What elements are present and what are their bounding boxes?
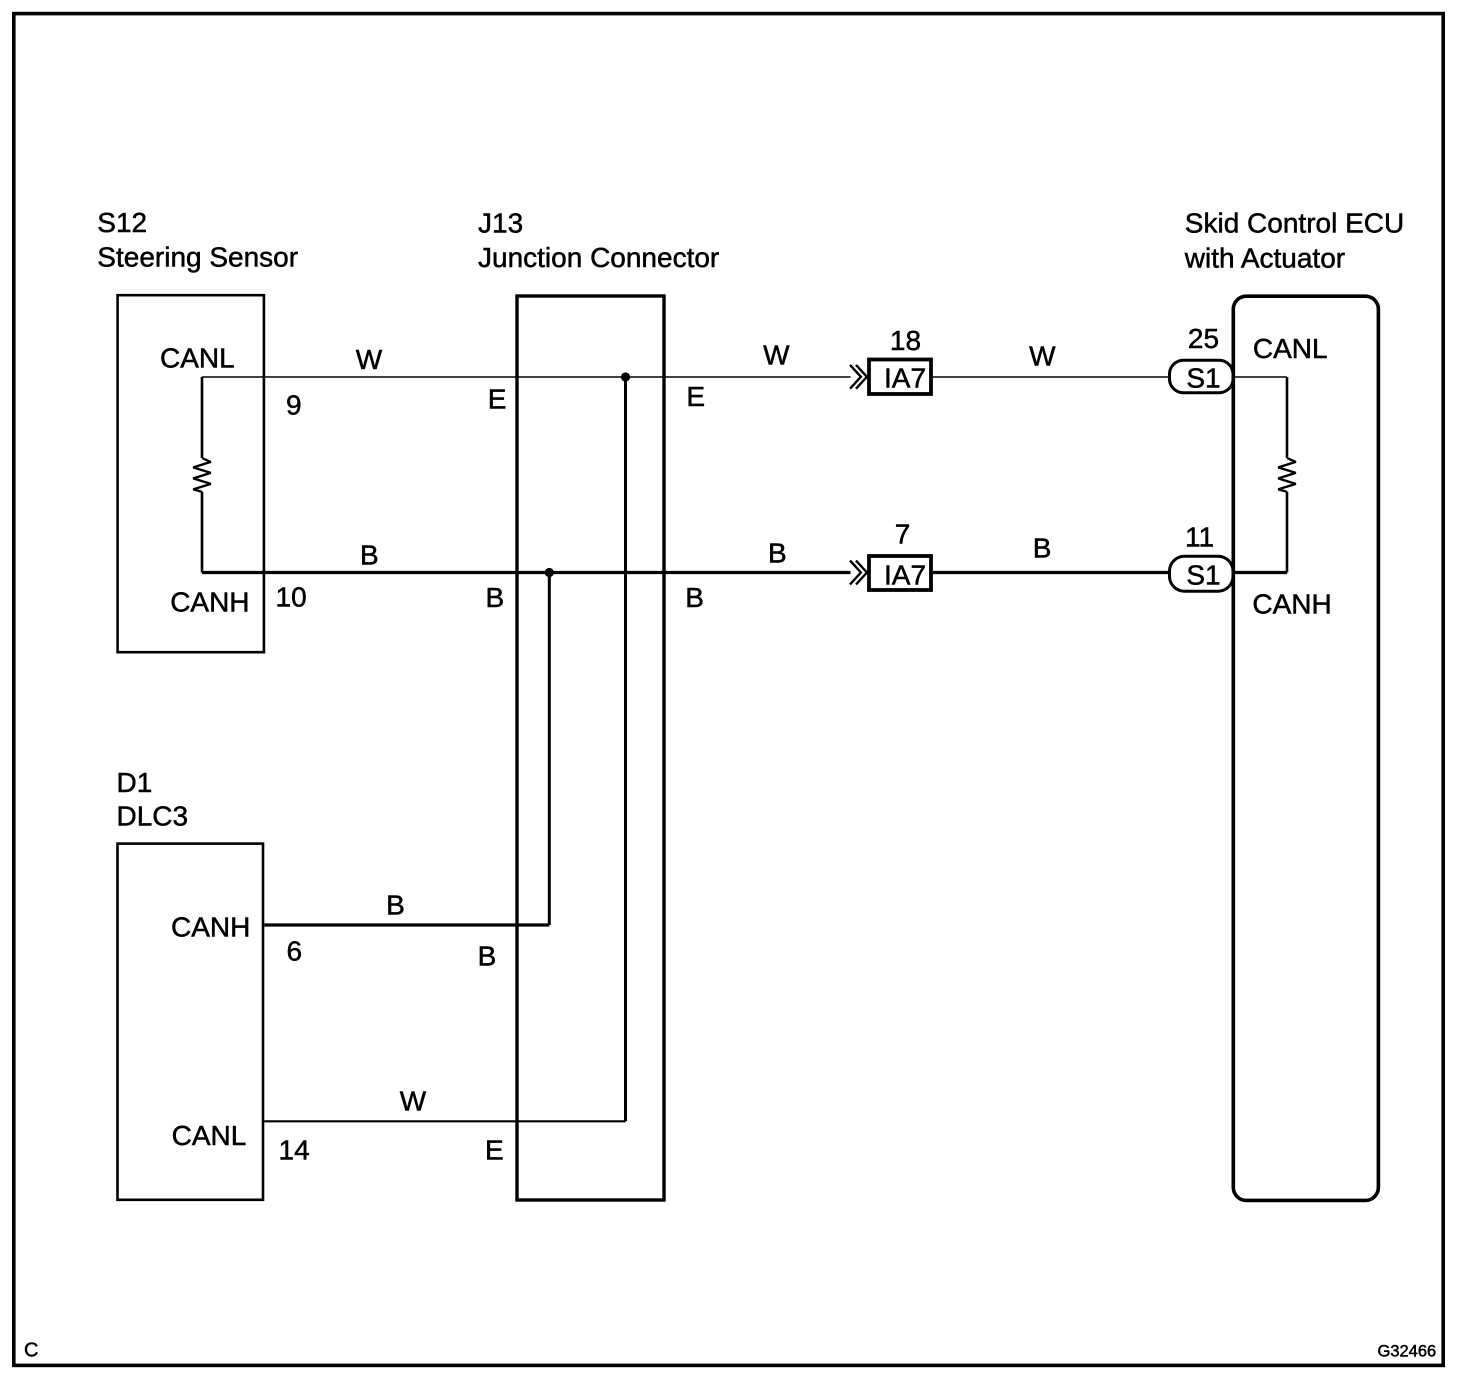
svg-text:Junction Connector: Junction Connector [478,242,719,273]
connector IA7 (pin 7) box [869,556,931,590]
wire CANH inside ECU [1235,571,1288,574]
svg-text:D1: D1 [117,767,153,798]
svg-text:B: B [1033,533,1052,564]
svg-text:10: 10 [276,582,307,613]
connector S1 (pin 25) oval [1170,360,1234,393]
svg-text:B: B [478,940,497,971]
skid control ECU box [1233,296,1378,1200]
wire CANL W (S12 to IA7) [202,376,851,378]
chevron into IA7 (CANH) [850,561,867,585]
svg-text:CANL: CANL [172,1120,247,1151]
resistor R (terminating, inside S12) [193,458,211,492]
svg-text:IA7: IA7 [884,559,926,590]
svg-text:IA7: IA7 [884,362,926,393]
svg-text:W: W [1029,341,1056,372]
svg-text:CANH: CANH [171,912,250,943]
wire DLC3 CANL W [264,1120,625,1122]
steering sensor S12 box [118,295,264,652]
svg-text:CANL: CANL [1253,333,1328,364]
svg-text:C: C [24,1340,38,1362]
svg-text:S12: S12 [97,207,147,238]
svg-text:W: W [400,1085,427,1116]
svg-text:E: E [488,384,507,415]
svg-text:11: 11 [1185,521,1214,552]
junction connector J13 box [517,296,664,1200]
svg-text:B: B [386,890,405,921]
connector IA7 (pin 18) box [869,360,931,395]
svg-text:9: 9 [286,390,302,421]
svg-text:B: B [685,582,704,613]
resistor leg inside ECU [1286,377,1289,573]
connector S1 (pin 11) oval [1170,556,1234,591]
wire CANL inside ECU [1235,376,1288,378]
wire DLC3 CANH B [264,923,549,926]
svg-text:Skid Control ECU: Skid Control ECU [1185,208,1404,239]
svg-text:S1: S1 [1186,560,1220,591]
wire W drop (J13 junction to DLC3 CANL) [624,377,627,1121]
svg-text:S1: S1 [1186,362,1220,393]
wire B drop (J13 junction to DLC3 CANH) [548,573,551,926]
junction node on CANH wire [545,568,554,577]
wire CANH B (S12 to IA7) [202,571,851,574]
svg-text:E: E [485,1135,504,1166]
svg-text:CANH: CANH [170,587,249,618]
svg-text:18: 18 [890,325,921,356]
wire CANH B (IA7 to S1) [933,571,1169,574]
svg-text:W: W [763,339,790,370]
svg-text:CANL: CANL [160,343,235,374]
svg-text:Steering Sensor: Steering Sensor [97,242,298,273]
svg-text:W: W [356,344,383,375]
resistor R (terminating, inside ECU) [1278,458,1296,492]
svg-text:J13: J13 [478,208,523,239]
chevron into IA7 (CANL) [850,365,867,389]
svg-text:7: 7 [895,519,911,550]
resistor leg inside S12 [201,377,204,573]
wire CANL W (IA7 to S1) [933,376,1169,378]
svg-text:CANH: CANH [1252,589,1331,620]
svg-text:DLC3: DLC3 [117,801,189,832]
svg-text:with Actuator: with Actuator [1184,243,1345,274]
svg-text:6: 6 [287,935,303,966]
svg-text:B: B [360,539,379,570]
junction node on CANL wire [621,372,630,381]
DLC3 connector D1 box [118,844,264,1200]
svg-text:B: B [768,538,787,569]
svg-text:G32466: G32466 [1378,1343,1437,1361]
svg-text:25: 25 [1188,323,1219,354]
svg-text:B: B [486,582,505,613]
svg-text:E: E [686,381,705,412]
svg-text:14: 14 [279,1135,310,1166]
